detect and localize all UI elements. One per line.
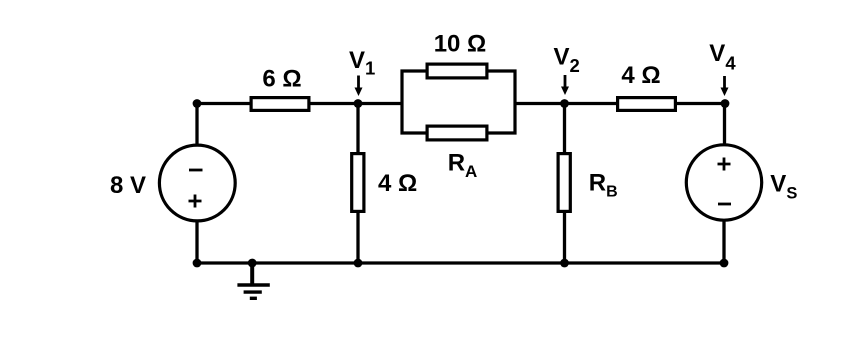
wire V2 branch upper — [563, 104, 566, 154]
node dot bottom of VS branch — [720, 259, 729, 268]
svg-text:8 V: 8 V — [110, 172, 146, 199]
node dot top-left — [193, 99, 202, 108]
svg-text:V2: V2 — [554, 44, 580, 77]
resistor 10 ohm box (top of parallel block) — [427, 64, 487, 78]
arrow at node V2 — [561, 75, 569, 95]
wire left branch upper — [195, 104, 198, 147]
wire 6-ohm resistor to parallel block via node V1 — [310, 102, 402, 105]
svg-text:VS: VS — [770, 170, 797, 202]
parallel block frame: left bar and stubs — [402, 69, 515, 134]
resistor RA box (bottom of parallel block) — [427, 126, 487, 140]
arrow at node V1 — [355, 76, 363, 97]
wire V4 branch upper — [723, 104, 726, 147]
wire V2 branch lower — [563, 212, 566, 263]
node dot V4 — [721, 99, 730, 108]
wire V4 branch lower — [722, 220, 725, 264]
wire top-left node to 6-ohm resistor — [197, 102, 250, 105]
svg-text:V4: V4 — [709, 40, 736, 74]
wire parallel block to 4-ohm resistor via node V2 — [515, 102, 616, 105]
wire V1 branch upper — [356, 104, 359, 154]
minus sign inside 8V source — [189, 169, 203, 172]
node dot V2 — [560, 99, 569, 108]
minus sign inside VS source — [718, 203, 731, 206]
ground symbol — [237, 263, 269, 298]
resistor 6 ohm horizontal box — [251, 98, 309, 111]
voltage source 8V circle — [159, 145, 235, 221]
plus sign inside VS source — [718, 158, 731, 171]
svg-text:V1: V1 — [349, 47, 375, 79]
node dot ground junction — [248, 259, 257, 268]
node dot V1 — [354, 99, 363, 108]
node dot bottom of V2 branch — [560, 259, 569, 268]
wire V1 branch lower — [356, 212, 359, 263]
node dot bottom-left — [193, 259, 202, 268]
svg-text:6 Ω: 6 Ω — [262, 66, 301, 93]
svg-text:10 Ω: 10 Ω — [434, 31, 487, 58]
resistor 4 ohm vertical box (middle branch) — [352, 154, 364, 212]
resistor 4 ohm horizontal box (right) — [618, 98, 676, 111]
svg-text:RA: RA — [448, 149, 478, 181]
svg-text:4 Ω: 4 Ω — [621, 62, 660, 89]
plus sign inside 8V source — [189, 195, 202, 208]
wire 4-ohm resistor to node V4 — [677, 102, 725, 105]
voltage source VS circle — [686, 145, 761, 220]
arrow at node V4 — [721, 76, 729, 96]
wire bottom rail — [197, 261, 724, 264]
svg-text:4 Ω: 4 Ω — [378, 170, 417, 197]
resistor RB vertical box — [558, 154, 570, 212]
node dot bottom of V1 branch — [354, 259, 363, 268]
svg-text:RB: RB — [589, 170, 618, 201]
wire left branch lower — [195, 221, 198, 264]
